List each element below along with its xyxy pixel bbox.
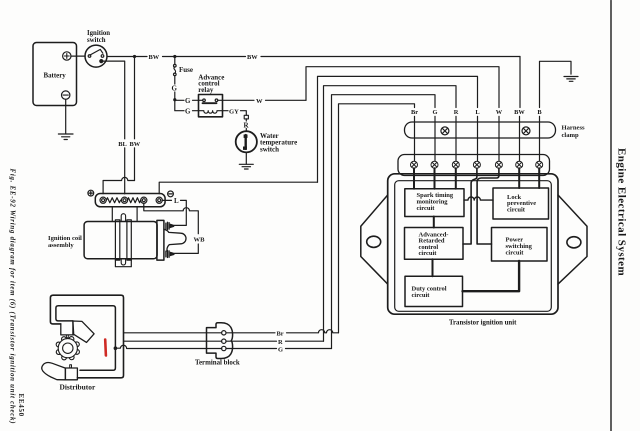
- advance control relay K1: [198, 74, 224, 117]
- ground B wire: [564, 77, 578, 82]
- wire: duty box to power switching box (thick): [463, 261, 520, 291]
- wire R: distributor to terminal block to riser: [124, 339, 324, 346]
- wire W: relay contact to W riser: [223, 98, 307, 105]
- coil bottom pin: [121, 259, 125, 265]
- distributor pickup housing rect: [65, 368, 77, 380]
- wire: BW drop over BL (hop) to resistor terminal 1: [103, 177, 134, 193]
- transistor ignition unit inner line: [395, 181, 552, 312]
- svg-text:BW: BW: [514, 109, 525, 116]
- wires: label row down through harness clamp to connector: [415, 116, 540, 160]
- coil bottom bolt terminal: [166, 251, 174, 258]
- svg-text:Harness: Harness: [562, 125, 586, 132]
- svg-text:G: G: [433, 109, 438, 116]
- circuit box: spark timing monitoring: [405, 189, 464, 217]
- coil top bolt terminal: [166, 222, 174, 229]
- battery B1: [33, 43, 77, 106]
- resistor terminal 3: [141, 197, 147, 203]
- ignition switch S1: [85, 30, 110, 67]
- svg-text:L: L: [174, 197, 179, 205]
- wire BL: switch lower contact down to resistor block terminal 2: [103, 61, 125, 194]
- resistor R1 zigzag: [106, 198, 120, 203]
- svg-text:GY: GY: [229, 108, 239, 115]
- coil strap 1: [115, 220, 119, 260]
- wire L: connector jog down to advanced-retarded box: [463, 168, 477, 244]
- svg-text:L: L: [475, 109, 479, 116]
- wire L staircase: top run and riser: [318, 76, 478, 182]
- wires: resistor block down to coil body: [112, 207, 137, 222]
- distributor vacuum advance unit body: [61, 321, 74, 335]
- svg-text:WB: WB: [194, 236, 206, 243]
- resistor R2 zigzag: [127, 198, 140, 203]
- wire BW staircase: corner down to harness label: [519, 57, 521, 108]
- distributor outer outline: [50, 295, 123, 378]
- svg-text:EE450: EE450: [17, 394, 25, 417]
- svg-text:W: W: [496, 109, 503, 116]
- wire battery positive to ignition switch: [71, 55, 85, 57]
- connector square on GY/R wire: [244, 115, 248, 119]
- relay coil: [199, 111, 223, 114]
- wire G to relay contact row: [175, 97, 199, 105]
- wire WB: terminal 3 down, over L wire (hop), down to coil bottom bolt: [144, 203, 199, 253]
- polarity mark plus: [88, 190, 94, 196]
- ground water switch: [239, 164, 253, 169]
- ignition coil assembly: [48, 235, 82, 249]
- svg-text:BL: BL: [118, 141, 127, 148]
- svg-text:BW: BW: [130, 141, 141, 148]
- svg-text:R: R: [454, 109, 459, 116]
- svg-text:circuit: circuit: [417, 205, 436, 212]
- wire Br: distributor to terminal block to riser: [124, 330, 339, 338]
- wire Br into spark box: [413, 168, 415, 189]
- wire R into spark box: [455, 168, 457, 189]
- coil bracket foot: [115, 260, 131, 267]
- wire GY: relay coil to water temperature switch: [223, 108, 247, 115]
- wire B: from harness label up to ground: [540, 61, 572, 107]
- fuse F1: [174, 57, 194, 85]
- circuit box: duty control: [405, 276, 463, 306]
- svg-text:R: R: [278, 339, 283, 346]
- svg-text:BW: BW: [247, 54, 258, 61]
- svg-text:G: G: [185, 107, 191, 115]
- svg-text:circuit: circuit: [419, 250, 438, 257]
- wire G staircase: [332, 95, 436, 349]
- battery negative terminal: [61, 91, 69, 99]
- wire BW: junction down to jog over to terminal 1: [134, 57, 136, 181]
- coil body: [84, 222, 157, 259]
- transistor ignition unit outer case: [388, 174, 558, 314]
- harness wire labels row: [411, 109, 542, 116]
- resistor block (ballast): [95, 194, 165, 207]
- connector bar: [398, 155, 550, 176]
- svg-text:switch: switch: [87, 37, 106, 44]
- svg-text:circuit: circuit: [412, 292, 431, 299]
- wire R staircase: [324, 86, 457, 342]
- wire B into lock box: [538, 168, 540, 188]
- distributor pickup arm: [42, 362, 66, 379]
- coil strap 2: [127, 220, 131, 260]
- coil top pin: [121, 214, 125, 222]
- distributor lower connector stem: [70, 365, 72, 368]
- water temperature switch: [236, 131, 297, 153]
- coil cap body with HT tower: [164, 229, 186, 251]
- page border rule (right): [610, 1, 612, 431]
- circuit box: power switching: [492, 228, 548, 262]
- terminal block: [195, 323, 240, 367]
- wire G to relay coil row: [175, 100, 199, 116]
- label BL: [118, 139, 127, 148]
- wire Br staircase: [339, 104, 415, 333]
- wire BW into lock box: [518, 168, 520, 188]
- svg-text:W: W: [256, 98, 263, 105]
- wire G: distributor junction, hop over outline, to terminal block to riser: [115, 345, 331, 353]
- wire: advanced box down to duty box: [432, 259, 434, 276]
- svg-text:Engine Electrical System: Engine Electrical System: [615, 148, 627, 276]
- distributor vacuum advance arm: [73, 321, 94, 342]
- wire: spark box to lock box with hops over L and W: [464, 197, 493, 200]
- resistor terminal 1: [100, 197, 106, 203]
- circuit box: lock preventive: [493, 188, 549, 219]
- svg-text:G: G: [172, 84, 178, 92]
- svg-text:relay: relay: [198, 86, 214, 94]
- polarity mark minus: [168, 191, 174, 197]
- svg-text:Fig. EE-92 Wiring diagram for: Fig. EE-92 Wiring diagram for item (6) (…: [9, 169, 16, 425]
- wire fuse to relay junction: [174, 92, 176, 100]
- node: junction on BW wire for fuse branch: [173, 55, 176, 58]
- svg-text:Transistor ignition unit: Transistor ignition unit: [449, 320, 517, 327]
- svg-text:G: G: [278, 346, 283, 353]
- wire W: connector jog left and down to power switching box: [477, 168, 499, 244]
- harness clamp: [405, 122, 586, 139]
- node: junction on BW wire for BW drop: [133, 55, 136, 58]
- svg-text:assembly: assembly: [48, 242, 74, 249]
- distributor inner outline: [56, 306, 116, 371]
- distributor upper connector stem: [66, 335, 68, 338]
- svg-text:Distributor: Distributor: [60, 382, 96, 391]
- svg-text:clamp: clamp: [562, 132, 580, 139]
- svg-text:circuit: circuit: [507, 207, 526, 214]
- red check mark: [104, 340, 107, 356]
- svg-text:Ignition: Ignition: [87, 30, 110, 37]
- node: junction on inner outline: [114, 346, 118, 350]
- svg-text:switch: switch: [260, 145, 279, 153]
- transistor ignition unit left mounting ear: [361, 195, 388, 284]
- svg-text:Fuse: Fuse: [179, 66, 193, 74]
- wire L horizontal to resistor block terminal 4: [159, 182, 317, 194]
- svg-text:circuit: circuit: [506, 249, 525, 256]
- svg-text:Terminal block: Terminal block: [195, 360, 240, 367]
- wire battery negative to ground: [65, 99, 67, 134]
- coil cap flange: [157, 220, 164, 260]
- circuit box: advanced-retarded control: [405, 228, 464, 260]
- wire W staircase: riser from relay, top run, down to harness label: [306, 67, 499, 108]
- relay contact pair: [199, 99, 223, 103]
- wire L from terminal 4 to coil top bolt: [162, 197, 186, 225]
- wire BW: ignition switch to right staircase corner: [107, 54, 520, 61]
- wire: spark box down to advanced box: [433, 217, 435, 228]
- svg-text:Br: Br: [411, 109, 418, 116]
- svg-text:BW: BW: [149, 54, 160, 61]
- svg-text:G: G: [185, 97, 191, 105]
- wire G into spark box: [434, 168, 436, 189]
- node: junction G: [173, 98, 176, 101]
- wire R to water temperature switch: [245, 119, 247, 131]
- svg-text:Br: Br: [277, 331, 284, 338]
- connector terminals (7x): [411, 161, 543, 168]
- distributor reluctor gear: [56, 337, 79, 360]
- battery positive terminal: [63, 52, 71, 60]
- wire switch to ground: [245, 152, 247, 164]
- svg-text:Battery: Battery: [44, 73, 67, 80]
- ground battery: [58, 134, 73, 140]
- transistor ignition unit right mounting ear: [558, 195, 587, 284]
- resistor terminal 2: [121, 197, 127, 203]
- resistor terminal 4: [156, 197, 162, 203]
- label BW: [129, 139, 140, 148]
- svg-text:B: B: [537, 109, 542, 116]
